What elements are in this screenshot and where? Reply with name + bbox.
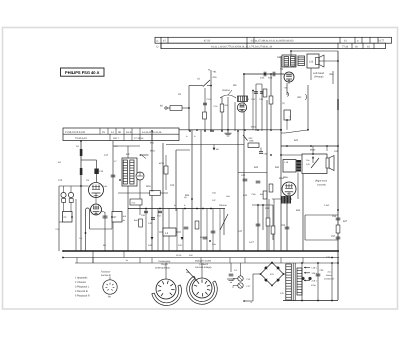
- svg-text:1 Appendix: 1 Appendix: [75, 277, 88, 280]
- svg-text:4n: 4n: [123, 219, 125, 222]
- svg-text:47,50: 47,50: [204, 40, 211, 43]
- svg-text:33,10: 33,10: [126, 131, 133, 134]
- svg-text:L23: L23: [309, 61, 314, 64]
- svg-text:162 7: 162 7: [113, 137, 120, 140]
- svg-text:L45 v: L45 v: [312, 267, 318, 270]
- svg-text:B45: B45: [254, 166, 259, 169]
- svg-text:B16a: B16a: [251, 126, 257, 129]
- svg-text:C5B: C5B: [264, 153, 269, 156]
- svg-text:A46: A46: [268, 77, 273, 80]
- svg-text:3 Playback L: 3 Playback L: [75, 286, 90, 289]
- svg-text:C54: C54: [332, 215, 337, 218]
- svg-text:77,44: 77,44: [342, 45, 349, 48]
- svg-text:A16: A16: [213, 76, 218, 79]
- svg-text:(Right-hand: (Right-hand: [315, 180, 328, 183]
- svg-text:C84: C84: [277, 56, 282, 59]
- svg-text:C17: C17: [104, 154, 109, 157]
- svg-text:FLT: FLT: [247, 285, 251, 288]
- svg-text:A,B: A,B: [306, 163, 310, 166]
- svg-text:2 Chassis: 2 Chassis: [75, 281, 87, 284]
- svg-text:Mains: Mains: [326, 274, 332, 277]
- svg-text:27 41,55: 27 41,55: [134, 137, 144, 140]
- svg-text:B47: B47: [343, 220, 348, 223]
- svg-text:PHILIPS FSG 40 A: PHILIPS FSG 40 A: [65, 70, 99, 75]
- svg-text:B42: B42: [294, 139, 299, 142]
- svg-text:44,4,LL,40,N2,775,A,42/D4,SL,4: 44,4,LL,40,N2,775,A,42/D4,SL,4L,L/75,2x0…: [211, 46, 273, 49]
- svg-text:W4b: W4b: [146, 185, 151, 188]
- svg-text:1,5A: 1,5A: [324, 204, 329, 207]
- svg-text:transformer: transformer: [324, 278, 335, 281]
- svg-text:C57: C57: [331, 235, 336, 238]
- svg-text:5 Playback R: 5 Playback R: [75, 295, 90, 298]
- svg-text:B40: B40: [275, 166, 280, 169]
- svg-text:(Primar): (Primar): [314, 76, 324, 79]
- svg-text:buchse B: buchse B: [101, 274, 111, 277]
- svg-text:(Videospharta): (Videospharta): [155, 266, 170, 269]
- svg-text:C47: C47: [238, 230, 243, 233]
- svg-text:5%: 5%: [200, 236, 203, 239]
- svg-text:2L5 v: 2L5 v: [312, 280, 318, 283]
- svg-text:470µ: 470µ: [311, 284, 316, 287]
- svg-text:Volume: Volume: [219, 204, 227, 207]
- svg-text:21,55,24,25 44,50: 21,55,24,25 44,50: [65, 131, 86, 134]
- svg-text:B3B: B3B: [250, 140, 255, 143]
- svg-text:Volume: Volume: [222, 89, 231, 92]
- svg-text:B48: B48: [330, 73, 335, 76]
- svg-text:C40: C40: [241, 174, 246, 177]
- svg-text:4 Record B: 4 Record B: [75, 290, 88, 293]
- svg-text:C44: C44: [243, 194, 248, 197]
- svg-text:73,30,6,31: 73,30,6,31: [75, 137, 87, 140]
- svg-text:C23: C23: [170, 184, 175, 187]
- svg-text:74,77: 74,77: [378, 40, 385, 43]
- svg-text:Fernseh anlage): Fernseh anlage): [195, 266, 212, 269]
- svg-text:Multiplex socket: Multiplex socket: [195, 260, 211, 263]
- svg-text:D: D: [157, 46, 159, 49]
- svg-text:B210: B210: [159, 162, 165, 165]
- svg-text:Plug R: Plug R: [161, 263, 168, 266]
- svg-text:channel): channel): [317, 183, 326, 186]
- svg-text:92P: 92P: [126, 153, 130, 156]
- svg-text:Tonausgang: Tonausgang: [158, 260, 171, 263]
- svg-text:Tonband-: Tonband-: [101, 271, 111, 274]
- svg-text:C: C: [157, 40, 159, 43]
- svg-text:C52: C52: [281, 224, 286, 227]
- svg-text:B44: B44: [296, 209, 301, 212]
- svg-text:(Lanke R: (Lanke R: [199, 263, 209, 266]
- svg-text:W4a: W4a: [150, 150, 155, 153]
- svg-text:A,C,: A,C,: [328, 271, 332, 274]
- svg-text:4,5,4x,47,4M,4x,44,4L,4x,W,500: 4,5,4x,47,4M,4x,44,4L,4x,W,500,W,4/3: [251, 40, 295, 43]
- svg-text:C50: C50: [265, 207, 270, 210]
- svg-text:W8a: W8a: [283, 176, 288, 179]
- svg-text:W5a: W5a: [279, 177, 284, 180]
- svg-text:B41: B41: [298, 96, 303, 99]
- svg-text:C13: C13: [58, 179, 63, 182]
- svg-text:C24: C24: [260, 77, 265, 80]
- svg-text:B26: B26: [185, 194, 190, 197]
- svg-text:Mute: Mute: [310, 149, 316, 152]
- svg-text:29 Pb: 29 Pb: [176, 254, 182, 257]
- svg-text:C4B: C4B: [252, 193, 257, 196]
- svg-text:(2): (2): [282, 102, 285, 105]
- svg-text:A,27: A,27: [249, 241, 254, 244]
